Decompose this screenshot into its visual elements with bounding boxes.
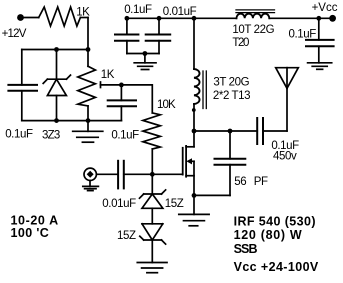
capacitor 56 PF <box>215 131 246 195</box>
ground G4 at connector <box>83 181 99 191</box>
capacitor 0.1uF (wiper) <box>108 85 136 121</box>
svg-text:3T 20G: 3T 20G <box>213 77 249 89</box>
wire +12V to R 1K <box>24 17 39 19</box>
potentiometer 1K body <box>78 66 96 106</box>
node junction dot (121.4,84.9) <box>119 83 124 88</box>
svg-text:+12V: +12V <box>2 28 27 40</box>
svg-text:15Z: 15Z <box>117 230 136 242</box>
capacitor 0.1uF (top left of pair) <box>115 18 138 53</box>
ground G6 under zeners <box>137 263 167 273</box>
node junction dot (194,18.3) <box>192 16 197 21</box>
capacitor 0.01uF (top) <box>146 18 171 53</box>
capacitor 0.1uF 450v (series) <box>257 118 287 144</box>
svg-text:T20: T20 <box>232 37 249 49</box>
ground G5 under source <box>179 195 209 225</box>
svg-text:0.1uF: 0.1uF <box>289 29 317 41</box>
svg-text:120 (80) W: 120 (80) W <box>234 228 303 242</box>
svg-text:15Z: 15Z <box>165 198 184 210</box>
node junction dot (56.5,49.5) <box>54 47 59 52</box>
node junction dot (144.9,53.5) <box>143 51 148 56</box>
wire source to 56pF <box>194 194 230 196</box>
antenna <box>276 68 299 131</box>
node coil end blob <box>192 108 196 112</box>
svg-text:56: 56 <box>234 176 246 188</box>
svg-text:450v: 450v <box>273 150 297 162</box>
node junction dot (56.5,120.6) <box>54 118 59 123</box>
zener diode 15Z upper <box>140 190 166 224</box>
inductor 3T core <box>203 71 206 109</box>
node junction dot (194,195.4) <box>192 193 197 198</box>
svg-text:PF: PF <box>254 176 268 188</box>
zener diode 15Z lower <box>140 224 166 263</box>
node junction dot (194,131) <box>192 129 197 134</box>
wire pot bottom <box>87 106 89 121</box>
svg-text:0.1uF: 0.1uF <box>5 128 33 140</box>
node +12V terminal dot <box>17 14 24 21</box>
svg-text:SSB: SSB <box>234 242 258 256</box>
wire left vertical x=21.3 <box>21 50 23 85</box>
wire drain bus y=131 <box>194 130 257 132</box>
transformer T20 core <box>236 10 275 13</box>
potentiometer 1K wiper <box>101 82 152 88</box>
node junction dot (88,49.5) <box>86 47 91 52</box>
wire connector to input cap <box>96 173 118 175</box>
node junction dot (159.5,18.3) <box>157 16 162 21</box>
svg-text:+Vcc: +Vcc <box>312 2 338 14</box>
transistor Q1 MOSFET <box>183 131 194 195</box>
svg-text:10K: 10K <box>157 99 176 111</box>
svg-text:3Z3: 3Z3 <box>42 130 60 142</box>
svg-text:100 'C: 100 'C <box>11 226 50 240</box>
svg-text:0.1uF: 0.1uF <box>111 129 139 141</box>
resistor R 1K horizontal <box>39 7 81 26</box>
wire vertical x=88 down to pot <box>87 18 89 67</box>
wire top bus y=18.3 <box>127 17 236 19</box>
svg-text:0.1uF: 0.1uF <box>124 4 152 16</box>
svg-text:10T 22G: 10T 22G <box>232 24 274 36</box>
svg-text:IRF 540 (530): IRF 540 (530) <box>234 214 316 228</box>
svg-text:0.01uF: 0.01uF <box>163 6 197 18</box>
wire bus y=49.5 <box>22 49 88 51</box>
node junction dot (126.9,18.3) <box>125 16 130 21</box>
node junction dot (152.3,174.3) <box>150 172 155 177</box>
wire T20 to +Vcc <box>270 17 332 19</box>
svg-text:0.01uF: 0.01uF <box>102 198 136 210</box>
node junction dot (88,120.6) <box>86 118 91 123</box>
ground G1 under pot <box>73 121 103 143</box>
node junction dot (318.8,18.3) <box>316 16 321 21</box>
capacitor 0.1uF (left) <box>8 85 37 121</box>
resistor 10K <box>143 85 160 174</box>
wire input cap to gate <box>124 173 183 175</box>
wire junction to zener 1 <box>151 174 153 194</box>
transformer T20 winding <box>237 14 270 19</box>
svg-text:2*2 T13: 2*2 T13 <box>213 90 250 102</box>
ground G3 under Vcc cap <box>308 63 332 70</box>
inductor 3T coil <box>194 18 200 131</box>
capacitor 0.01uF (input series) <box>118 161 124 189</box>
svg-text:Vcc +24-100V: Vcc +24-100V <box>234 260 319 274</box>
node +Vcc terminal dot <box>329 15 336 22</box>
capacitor 0.1uF (Vcc) <box>306 18 334 63</box>
ground G2 under top caps <box>134 54 156 70</box>
wire bus under top caps <box>127 53 159 55</box>
wire ground bus y=120.6 <box>22 120 122 122</box>
input connector J1 <box>84 168 96 180</box>
zener diode 3Z3 <box>43 50 70 121</box>
wire R 1K to vertical <box>80 17 88 19</box>
svg-text:1K: 1K <box>101 69 115 81</box>
node junction dot (230,131) <box>228 129 233 134</box>
